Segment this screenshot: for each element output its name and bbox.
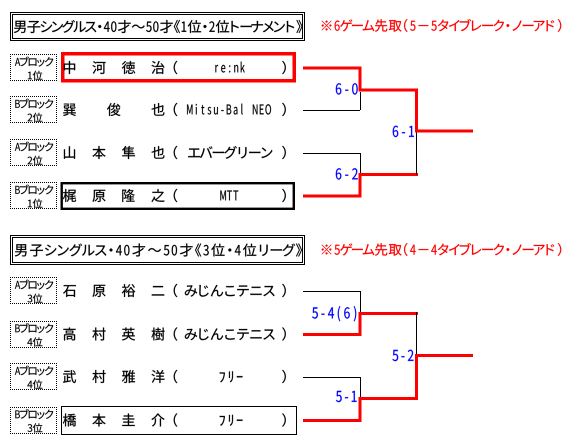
score 6-0 <box>336 83 358 94</box>
title 2 text <box>15 243 302 256</box>
title 1 text <box>14 20 303 33</box>
wire: row1 winner line red <box>303 67 362 70</box>
player 5: 石原裕二 (みじんこテニス) <box>63 284 286 297</box>
title box 1: double border <box>11 13 305 41</box>
wire: pair2 vertical black <box>360 153 361 173</box>
title box 2: double border <box>11 236 305 265</box>
block label 7: Aブロック 4位 <box>10 363 57 365</box>
note 2 (red) <box>322 243 562 256</box>
score 5-1 <box>336 391 357 402</box>
wire: row4 winner line red <box>303 195 362 198</box>
wire: row3 line <box>303 153 360 154</box>
player 3: 山本隼也 (エバーグリーン) <box>64 146 286 159</box>
wire: pair3 mid line red <box>359 312 419 315</box>
score 5-4(6) <box>312 306 356 321</box>
wire: row5 line <box>303 291 360 292</box>
wire: pair1 vertical red <box>359 67 362 92</box>
player 7: 武村雅洋 (ﾌﾘｰ) <box>63 370 286 383</box>
block label 4: Bブロック 1位 <box>10 182 57 184</box>
wire: pair1 vertical black <box>360 92 361 110</box>
wire: row2 line <box>303 110 360 111</box>
block label 6: Bブロック 4位 <box>10 321 57 323</box>
score 6-2 <box>336 168 358 179</box>
wire: final2 vertical red <box>415 354 418 400</box>
score 6-1 <box>393 126 414 137</box>
wire: champion2 line red <box>415 354 473 357</box>
block label 3: Aブロック 2位 <box>10 139 57 141</box>
wire: final vertical red <box>415 89 418 133</box>
block label 1: Aブロック 1位 <box>10 54 57 56</box>
score 5-2 <box>392 350 413 361</box>
wire: pair3 vertical red <box>359 312 362 336</box>
player 4: 梶原隆之 (MTT) finalist box black <box>62 183 294 209</box>
block label 2: Bブロック 2位 <box>10 96 57 98</box>
wire: row8 winner line red <box>303 419 362 422</box>
player 8: 橋本圭介 (ﾌﾘｰ) winner box <box>62 407 297 435</box>
wire: pair2 mid line red <box>359 173 419 176</box>
wire: pair1 mid line red <box>359 89 419 92</box>
wire: row7 line <box>303 377 360 378</box>
player 1: 中河徳治 (re:nk) winner box red <box>63 54 295 81</box>
wire: champion line red <box>415 130 473 133</box>
wire: pair4 vertical black <box>360 377 361 397</box>
wire: pair3 vertical black <box>360 291 361 312</box>
block label 8: Bブロック 3位 <box>10 407 57 409</box>
wire: final2 vertical black <box>416 312 417 354</box>
wire: final vertical black <box>416 133 417 175</box>
wire: pair2 vertical red <box>359 173 362 198</box>
note 1 (red) <box>322 19 562 32</box>
wire: pair4 vertical red <box>359 397 362 422</box>
player 6: 高村英樹 (みじんこテニス) <box>63 327 285 340</box>
player 2: 巽俊也 (Mitsu-Bal NEO) <box>63 103 286 116</box>
wire: row6 winner line red <box>303 333 362 336</box>
wire: pair4 mid line red <box>359 397 419 400</box>
block label 5: Aブロック 3位 <box>10 277 57 279</box>
